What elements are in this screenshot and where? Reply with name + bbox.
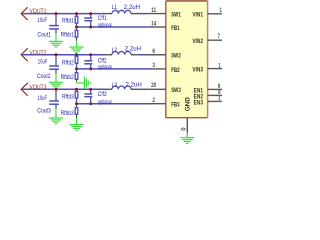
- svg-text:VIN1: VIN1: [192, 12, 203, 19]
- svg-text:FB1: FB1: [171, 25, 179, 32]
- svg-text:1: 1: [218, 96, 220, 103]
- svg-text:10uF: 10uF: [38, 95, 48, 102]
- svg-text:FB2: FB2: [171, 67, 179, 74]
- svg-text:VOUT2: VOUT2: [29, 50, 46, 57]
- svg-text:Rfbb1: Rfbb1: [61, 32, 74, 39]
- svg-text:GND: GND: [185, 97, 192, 112]
- svg-text:VOUT1: VOUT1: [29, 9, 46, 16]
- svg-text:2.2uH: 2.2uH: [124, 4, 140, 11]
- svg-text:2: 2: [152, 97, 155, 104]
- svg-text:Cout2: Cout2: [37, 74, 51, 81]
- svg-text:L2: L2: [112, 47, 117, 54]
- svg-text:SW2: SW2: [171, 53, 181, 60]
- svg-text:Rfbt2: Rfbt2: [62, 60, 74, 67]
- svg-text:optional: optional: [98, 64, 112, 71]
- svg-text:Cff3: Cff3: [98, 91, 107, 98]
- svg-text:Rfbb2: Rfbb2: [61, 75, 74, 82]
- svg-text:7: 7: [218, 34, 220, 41]
- svg-text:1: 1: [218, 63, 220, 70]
- svg-text:10uF: 10uF: [38, 59, 48, 66]
- svg-text:EN3: EN3: [194, 100, 203, 107]
- svg-text:11: 11: [151, 7, 156, 14]
- svg-text:14: 14: [151, 21, 157, 28]
- svg-text:Cout1: Cout1: [37, 32, 51, 39]
- svg-text:10uF: 10uF: [38, 17, 48, 24]
- svg-text:20: 20: [151, 83, 156, 90]
- svg-text:optional: optional: [98, 99, 112, 106]
- svg-text:2.2uH: 2.2uH: [126, 81, 142, 88]
- svg-text:L3: L3: [112, 82, 117, 89]
- svg-text:2.2uH: 2.2uH: [125, 46, 141, 53]
- svg-text:VIN3: VIN3: [192, 67, 203, 74]
- svg-text:Rfbb3: Rfbb3: [61, 110, 74, 117]
- svg-text:optional: optional: [98, 22, 112, 29]
- svg-text:Cout3: Cout3: [37, 108, 51, 115]
- svg-text:VIN2: VIN2: [192, 39, 203, 46]
- svg-text:SW1: SW1: [171, 12, 181, 19]
- svg-text:Rfbt1: Rfbt1: [62, 18, 74, 25]
- svg-text:FB3: FB3: [171, 102, 179, 109]
- svg-text:L1: L1: [112, 5, 117, 12]
- svg-text:SW3: SW3: [171, 87, 181, 94]
- svg-text:3: 3: [152, 63, 155, 70]
- svg-text:VOUT3: VOUT3: [29, 84, 47, 91]
- svg-text:1: 1: [219, 8, 221, 15]
- svg-text:Rfbt3: Rfbt3: [62, 94, 74, 101]
- svg-text:Cff1: Cff1: [98, 15, 107, 22]
- svg-text:6: 6: [152, 49, 155, 56]
